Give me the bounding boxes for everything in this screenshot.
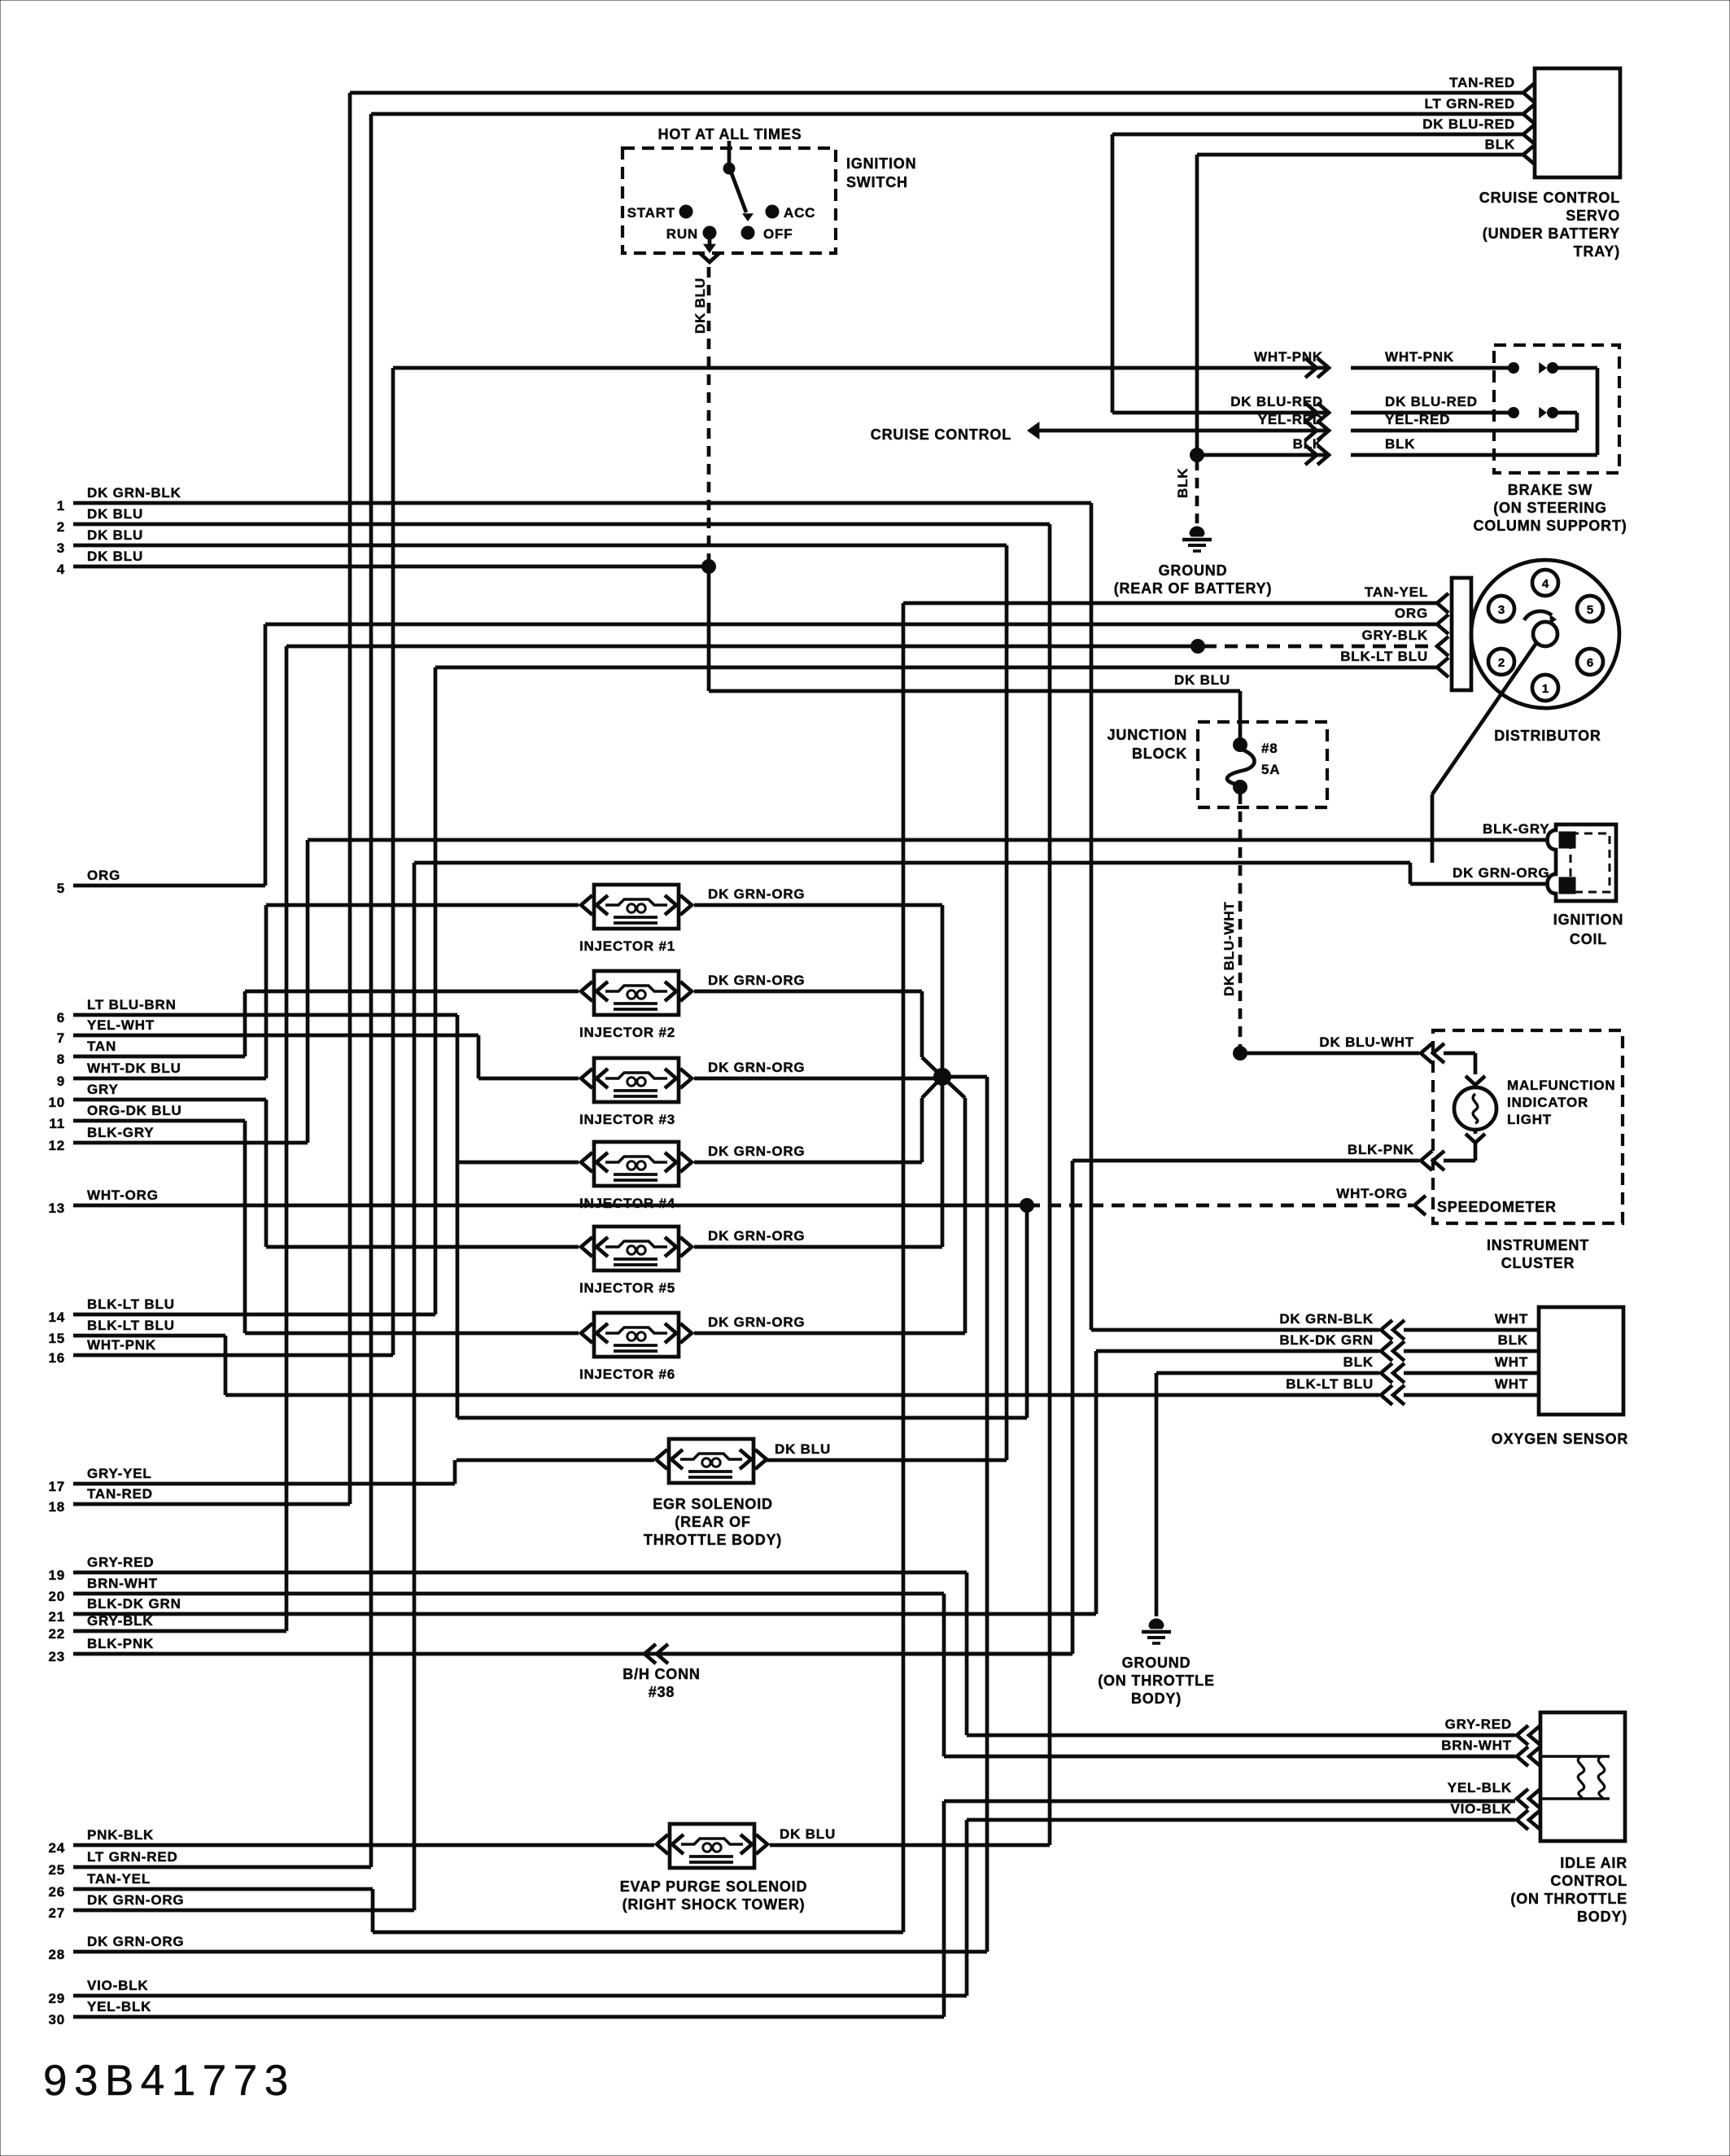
servo input BLK <box>1485 137 1535 164</box>
svg-text:(ON THROTTLE: (ON THROTTLE <box>1098 1673 1215 1689</box>
label INSTRUMENT CLUSTER <box>1487 1237 1589 1271</box>
wire GRY vertical to injector 5 <box>264 1100 269 1247</box>
wire 27 DK GRN-ORG <box>48 1892 414 1921</box>
svg-text:WHT: WHT <box>1495 1376 1528 1392</box>
wire 4 DK BLU <box>57 549 709 577</box>
svg-text:BLK-GRY: BLK-GRY <box>1483 821 1549 837</box>
wire 16 WHT-PNK <box>48 1337 393 1366</box>
svg-text:YEL-WHT: YEL-WHT <box>87 1017 155 1033</box>
wire DK GRN-ORG vertical bus to coil <box>413 863 417 1910</box>
label HOT AT ALL TIMES <box>658 126 802 142</box>
svg-text:CRUISE CONTROL: CRUISE CONTROL <box>1479 190 1620 206</box>
svg-text:TAN-YEL: TAN-YEL <box>1365 584 1428 600</box>
svg-text:SWITCH: SWITCH <box>846 174 908 190</box>
svg-text:BLK-LT BLU: BLK-LT BLU <box>1340 649 1428 664</box>
svg-text:DK GRN-ORG: DK GRN-ORG <box>708 1228 805 1244</box>
svg-text:IGNITION: IGNITION <box>846 155 916 172</box>
svg-text:BLK-LT BLU: BLK-LT BLU <box>87 1318 175 1333</box>
svg-text:LT GRN-RED: LT GRN-RED <box>87 1849 178 1865</box>
injector #4 <box>579 1142 806 1211</box>
fuse #8 5A <box>1227 738 1280 794</box>
svg-text:INJECTOR #3: INJECTOR #3 <box>579 1112 675 1127</box>
distributor terminal 6 <box>1577 649 1603 675</box>
injector #2 <box>579 971 806 1040</box>
svg-text:WHT-DK BLU: WHT-DK BLU <box>87 1061 181 1076</box>
cruise control servo box <box>1535 68 1620 177</box>
svg-text:LT BLU-BRN: LT BLU-BRN <box>87 997 177 1012</box>
injector 5 output <box>694 1245 942 1249</box>
distributor terminal 5 <box>1577 596 1603 622</box>
svg-text:DK GRN-BLK: DK GRN-BLK <box>1279 1311 1374 1327</box>
wire LT GRN-RED top <box>371 112 1523 116</box>
svg-text:GRY-BLK: GRY-BLK <box>1362 628 1428 643</box>
ignition switch dashed box <box>623 148 836 253</box>
svg-text:BLOCK: BLOCK <box>1132 746 1187 762</box>
wire BLK-LT BLU run <box>225 1393 1379 1397</box>
node injector output junction <box>934 905 988 1952</box>
wire 30 YEL-BLK <box>48 1999 944 2027</box>
wire ORG-DK BLU vertical to injector 6 <box>243 1121 247 1333</box>
wire 18 TAN-RED <box>48 1486 350 1515</box>
svg-text:10: 10 <box>48 1095 65 1110</box>
wire BLK run to ground <box>1156 1373 1379 1616</box>
svg-text:DK GRN-BLK: DK GRN-BLK <box>87 485 181 501</box>
distributor terminal 3 <box>1488 596 1514 622</box>
wire DK GRN-BLK run <box>1091 503 1379 1330</box>
svg-text:16: 16 <box>48 1350 65 1366</box>
svg-text:TAN-YEL: TAN-YEL <box>87 1871 151 1887</box>
wire TAN-RED top <box>350 91 1523 95</box>
wire TAN vertical to injector 2 <box>243 991 247 1056</box>
wire BLK to ground <box>1175 460 1197 523</box>
svg-text:BLK: BLK <box>1498 1332 1528 1348</box>
svg-text:EVAP PURGE SOLENOID: EVAP PURGE SOLENOID <box>620 1878 808 1895</box>
svg-text:OXYGEN SENSOR: OXYGEN SENSOR <box>1492 1431 1628 1447</box>
wire 26 TAN-YEL <box>48 1871 373 1900</box>
svg-text:14: 14 <box>48 1310 65 1325</box>
wire WHT-ORG dashed to speedometer <box>1027 1186 1426 1215</box>
terminal OFF <box>741 226 793 242</box>
label EVAP PURGE SOLENOID <box>620 1878 808 1913</box>
svg-text:HOT AT ALL TIMES: HOT AT ALL TIMES <box>658 126 802 142</box>
wire 9 WHT-DK BLU <box>57 1061 266 1089</box>
wire 14 BLK-LT BLU <box>48 1297 435 1325</box>
injector #6 <box>579 1313 806 1382</box>
svg-text:24: 24 <box>48 1840 65 1856</box>
svg-text:5: 5 <box>1587 603 1593 617</box>
wire 22 GRY-BLK <box>48 1613 286 1642</box>
svg-text:21: 21 <box>48 1609 65 1625</box>
EVAP output wire DK BLU <box>770 524 1050 1845</box>
svg-text:DK GRN-ORG: DK GRN-ORG <box>708 886 805 902</box>
svg-text:IDLE AIR: IDLE AIR <box>1560 1855 1627 1871</box>
wire DK BLU-RED <box>1112 394 1514 422</box>
oxygen sensor wire BLK-DK GRN <box>1279 1332 1539 1361</box>
distributor body <box>1471 560 1619 708</box>
svg-text:11: 11 <box>49 1116 65 1131</box>
svg-text:GRY-RED: GRY-RED <box>1445 1716 1512 1732</box>
idle air control wire VIO-BLK <box>1451 1801 1540 1830</box>
label IGNITION SWITCH <box>846 155 916 190</box>
wire 17 GRY-YEL <box>48 1466 455 1494</box>
svg-text:5: 5 <box>57 881 65 896</box>
svg-text:TAN: TAN <box>87 1039 116 1054</box>
wire BRN-WHT run <box>944 1594 1515 1756</box>
wire DK BLU into fuse <box>1239 691 1243 745</box>
svg-text:19: 19 <box>48 1568 65 1583</box>
idle air control wire BRN-WHT <box>1441 1738 1540 1766</box>
wire YEL-WHT vertical to injector 3 <box>477 1035 481 1078</box>
svg-text:(UNDER BATTERY: (UNDER BATTERY <box>1483 225 1620 242</box>
svg-text:GROUND: GROUND <box>1122 1655 1191 1671</box>
IAC internal coils <box>1540 1756 1610 1799</box>
oxygen sensor box <box>1539 1307 1623 1415</box>
wire WHT-PNK vertical bus <box>391 368 395 1355</box>
injector 3 output <box>694 1077 942 1081</box>
label IGNITION COIL <box>1553 912 1623 947</box>
wire BLK-GRY to coil <box>308 821 1549 840</box>
wire ORG vertical <box>264 624 268 886</box>
wire BLK-GRY vertical to coil <box>306 840 310 1143</box>
svg-text:DK GRN-ORG: DK GRN-ORG <box>708 973 805 988</box>
svg-text:RUN: RUN <box>666 226 698 242</box>
brake switch contact WHT-PNK <box>1509 362 1598 455</box>
svg-text:(ON STEERING: (ON STEERING <box>1493 500 1607 516</box>
wire 28 DK GRN-ORG <box>48 1934 987 1962</box>
svg-text:DK BLU: DK BLU <box>775 1441 831 1457</box>
svg-text:3: 3 <box>1498 603 1505 617</box>
svg-text:BLK: BLK <box>1343 1354 1374 1370</box>
servo input TAN-RED <box>1449 75 1535 103</box>
svg-text:27: 27 <box>48 1905 65 1921</box>
svg-text:3: 3 <box>57 540 65 556</box>
wire 23 BLK-PNK <box>48 1636 1073 1664</box>
svg-text:WHT-PNK: WHT-PNK <box>1385 349 1454 365</box>
injector #1 <box>579 885 806 954</box>
svg-text:VIO-BLK: VIO-BLK <box>87 1978 148 1993</box>
wire 10 GRY <box>48 1082 266 1110</box>
svg-text:INJECTOR #1: INJECTOR #1 <box>579 938 675 954</box>
svg-text:2: 2 <box>57 519 65 535</box>
ignition coil connector <box>1548 824 1617 901</box>
svg-text:CRUISE CONTROL: CRUISE CONTROL <box>871 426 1011 443</box>
wire DK BLU from RUN <box>692 238 719 574</box>
oxygen sensor wire BLK-LT BLU <box>1286 1376 1539 1405</box>
wire ORG distributor <box>265 606 1448 634</box>
wire LT GRN-RED vertical bus <box>369 114 374 1867</box>
svg-text:WHT-ORG: WHT-ORG <box>1336 1186 1408 1201</box>
wire 2 DK BLU <box>57 506 1050 535</box>
injector 2 input <box>245 990 579 994</box>
svg-text:BRN-WHT: BRN-WHT <box>87 1576 158 1591</box>
svg-text:OFF: OFF <box>763 226 793 242</box>
svg-text:TAN-RED: TAN-RED <box>87 1486 153 1502</box>
svg-text:VIO-BLK: VIO-BLK <box>1451 1801 1512 1817</box>
svg-text:23: 23 <box>48 1649 65 1664</box>
svg-text:BODY): BODY) <box>1577 1909 1627 1925</box>
junction block dashed box <box>1198 722 1327 807</box>
wire TAN-RED vertical bus <box>348 93 352 1504</box>
svg-text:SERVO: SERVO <box>1566 208 1620 224</box>
svg-text:13: 13 <box>48 1200 65 1216</box>
svg-text:DK GRN-ORG: DK GRN-ORG <box>708 1144 805 1159</box>
wire 13 WHT-ORG <box>48 1187 1027 1216</box>
wire GRY-YEL vertical to EGR <box>453 1460 457 1484</box>
injector 4 input <box>457 1161 579 1165</box>
brake switch dashed box <box>1494 345 1619 473</box>
wire TAN-YEL elbow segment <box>373 1889 903 1932</box>
svg-text:BODY): BODY) <box>1131 1690 1182 1707</box>
label JUNCTION BLOCK <box>1107 727 1187 762</box>
ignition switch pivot <box>723 141 735 174</box>
ground rear of battery <box>1114 527 1273 597</box>
label SPEEDOMETER <box>1437 1199 1557 1215</box>
svg-text:INDICATOR: INDICATOR <box>1507 1095 1588 1110</box>
svg-text:THROTTLE BODY): THROTTLE BODY) <box>644 1532 782 1548</box>
wire 19 GRY-RED <box>48 1555 967 1583</box>
wire 12 BLK-GRY <box>48 1125 308 1153</box>
svg-text:18: 18 <box>48 1499 65 1515</box>
svg-text:DK BLU: DK BLU <box>692 278 708 334</box>
injector 1 output <box>694 903 942 907</box>
svg-text:TAN-RED: TAN-RED <box>1449 75 1515 90</box>
wire LT BLU-BRN vertical to injector 4 <box>456 1015 460 1418</box>
svg-text:(RIGHT SHOCK TOWER): (RIGHT SHOCK TOWER) <box>623 1896 806 1913</box>
svg-text:INJECTOR #4: INJECTOR #4 <box>579 1196 675 1211</box>
injector 6 output <box>694 1077 965 1333</box>
wire BLK-DK GRN run <box>1096 1351 1379 1614</box>
diagram id 93B41773 <box>43 2057 295 2105</box>
svg-text:GROUND: GROUND <box>1159 562 1228 579</box>
svg-text:6: 6 <box>1587 656 1593 670</box>
svg-text:DK BLU: DK BLU <box>1174 672 1230 688</box>
svg-text:DK GRN-ORG: DK GRN-ORG <box>708 1060 805 1075</box>
wire 15 BLK-LT BLU <box>48 1318 225 1346</box>
svg-text:DK BLU-WHT: DK BLU-WHT <box>1319 1034 1414 1050</box>
terminal RUN <box>666 226 716 242</box>
EGR solenoid <box>656 1439 831 1483</box>
svg-text:WHT: WHT <box>1495 1354 1528 1370</box>
svg-text:9: 9 <box>57 1074 65 1089</box>
svg-text:CONTROL: CONTROL <box>1550 1873 1627 1889</box>
injector #3 <box>579 1058 806 1127</box>
wire YEL-BLK run <box>944 1801 1515 2017</box>
wire WHT-ORG vertical <box>457 1199 1034 1419</box>
wire BLK-LT BLU vertical bus <box>434 667 438 1314</box>
svg-text:GRY-BLK: GRY-BLK <box>87 1613 153 1629</box>
svg-text:8: 8 <box>57 1052 65 1067</box>
svg-text:DK BLU-RED: DK BLU-RED <box>1385 394 1478 409</box>
svg-text:7: 7 <box>57 1030 65 1046</box>
wire GRY-BLK distributor <box>286 628 1448 656</box>
B/H connector #38 <box>623 1644 1073 1700</box>
svg-text:BLK: BLK <box>1385 436 1415 452</box>
terminal START <box>627 205 692 221</box>
wire 29 VIO-BLK <box>48 1978 967 2006</box>
svg-text:BLK-DK GRN: BLK-DK GRN <box>1279 1332 1374 1348</box>
svg-text:(ON THROTTLE: (ON THROTTLE <box>1510 1891 1627 1907</box>
injector 2 output <box>694 991 942 1077</box>
label BRAKE SW <box>1474 482 1627 534</box>
label OXYGEN SENSOR <box>1492 1431 1628 1447</box>
svg-text:DK BLU: DK BLU <box>87 506 143 522</box>
wire BLK-LT BLU distributor <box>435 649 1448 677</box>
svg-text:YEL-BLK: YEL-BLK <box>1448 1780 1512 1795</box>
svg-text:DK GRN-ORG: DK GRN-ORG <box>87 1892 184 1908</box>
ignition switch lever <box>732 173 754 221</box>
svg-text:MALFUNCTION: MALFUNCTION <box>1507 1078 1615 1093</box>
label DISTRIBUTOR <box>1494 728 1601 744</box>
svg-text:BLK-LT BLU: BLK-LT BLU <box>87 1297 175 1312</box>
wire BLK-LT BLU vertical to oxygen row <box>224 1336 228 1395</box>
svg-text:ORG: ORG <box>1395 606 1428 621</box>
injector 4 output <box>694 1077 942 1162</box>
svg-text:4: 4 <box>1542 577 1549 591</box>
svg-text:ORG: ORG <box>87 868 120 883</box>
brake switch contact DK BLU-RED <box>1509 407 1578 431</box>
svg-text:INJECTOR #6: INJECTOR #6 <box>579 1367 675 1382</box>
servo input DK BLU-RED <box>1422 116 1535 144</box>
idle air control wire YEL-BLK <box>1448 1780 1540 1808</box>
svg-text:22: 22 <box>48 1626 65 1642</box>
svg-text:15: 15 <box>48 1331 65 1346</box>
wire WHT-DK BLU vertical to injector 1 <box>264 905 269 1078</box>
wire 20 BRN-WHT <box>48 1576 944 1604</box>
svg-text:(REAR OF BATTERY): (REAR OF BATTERY) <box>1114 580 1273 597</box>
svg-text:START: START <box>627 205 675 221</box>
wire 8 TAN <box>57 1039 245 1067</box>
svg-text:INSTRUMENT: INSTRUMENT <box>1487 1237 1589 1253</box>
svg-text:6: 6 <box>57 1010 65 1026</box>
label EGR SOLENOID <box>644 1496 782 1548</box>
svg-text:JUNCTION: JUNCTION <box>1107 727 1187 743</box>
svg-text:BRAKE SW: BRAKE SW <box>1508 482 1592 498</box>
svg-text:SPEEDOMETER: SPEEDOMETER <box>1437 1199 1557 1215</box>
svg-text:ACC: ACC <box>784 205 815 221</box>
svg-text:IGNITION: IGNITION <box>1553 912 1623 928</box>
wire 11 ORG-DK BLU <box>49 1103 245 1131</box>
svg-text:COIL: COIL <box>1570 931 1607 947</box>
svg-text:#38: #38 <box>649 1684 675 1700</box>
wire DK BLU below RUN solid <box>709 566 1240 691</box>
idle air control box <box>1540 1712 1625 1841</box>
label MALFUNCTION INDICATOR LIGHT <box>1507 1078 1615 1127</box>
distributor terminal 4 <box>1532 570 1558 596</box>
distributor terminal 2 <box>1488 649 1514 675</box>
svg-text:GRY-YEL: GRY-YEL <box>87 1466 152 1481</box>
svg-text:WHT: WHT <box>1495 1311 1528 1327</box>
svg-text:DK BLU-WHT: DK BLU-WHT <box>1221 901 1237 996</box>
svg-text:BLK-PNK: BLK-PNK <box>1348 1142 1414 1157</box>
svg-text:BLK: BLK <box>1175 468 1190 498</box>
wire distributor to coil diagonal <box>1432 643 1536 863</box>
injector 6 input <box>245 1332 579 1336</box>
svg-text:YEL-BLK: YEL-BLK <box>87 1999 151 2014</box>
distributor connector bracket <box>1452 578 1471 690</box>
svg-text:ORG-DK BLU: ORG-DK BLU <box>87 1103 182 1118</box>
svg-text:LIGHT: LIGHT <box>1507 1112 1552 1127</box>
svg-text:1: 1 <box>1542 682 1549 696</box>
malfunction indicator light <box>1454 1076 1496 1161</box>
svg-text:YEL-RED: YEL-RED <box>1385 412 1450 427</box>
svg-text:WHT-PNK: WHT-PNK <box>87 1337 156 1353</box>
oxygen sensor wire DK GRN-BLK <box>1279 1311 1539 1340</box>
wire DK BLU-WHT to cluster <box>1240 1034 1475 1074</box>
svg-text:PNK-BLK: PNK-BLK <box>87 1827 154 1843</box>
wire TAN-YEL distributor <box>903 584 1448 613</box>
wire WHT-PNK <box>393 349 1514 378</box>
wire 3 DK BLU <box>57 527 1007 556</box>
wire 5 ORG <box>57 868 265 896</box>
svg-text:B/H CONN: B/H CONN <box>623 1666 700 1682</box>
label IDLE AIR CONTROL <box>1510 1855 1627 1925</box>
wire BLK brake <box>1197 436 1597 465</box>
EVAP purge solenoid <box>657 1824 836 1868</box>
terminal ACC <box>766 205 815 221</box>
injector 5 input <box>266 1245 579 1249</box>
svg-text:YEL-RED: YEL-RED <box>1258 412 1323 427</box>
svg-text:DK GRN-ORG: DK GRN-ORG <box>87 1934 184 1949</box>
svg-text:EGR SOLENOID: EGR SOLENOID <box>653 1496 773 1512</box>
svg-text:DK BLU: DK BLU <box>780 1826 836 1842</box>
svg-text:30: 30 <box>48 2012 65 2027</box>
wire GRY-RED run <box>967 1572 1515 1735</box>
svg-text:4: 4 <box>57 562 65 577</box>
EGR input wire <box>457 1458 654 1463</box>
svg-text:BLK-PNK: BLK-PNK <box>87 1636 154 1651</box>
svg-text:BLK-DK GRN: BLK-DK GRN <box>87 1596 181 1612</box>
injector 1 input <box>266 903 579 907</box>
wire TAN-YEL long vertical <box>902 603 906 1932</box>
distributor rotor <box>1524 611 1557 646</box>
svg-text:LT GRN-RED: LT GRN-RED <box>1424 96 1515 112</box>
svg-text:5A: 5A <box>1261 762 1280 777</box>
svg-text:#8: #8 <box>1261 741 1278 756</box>
oxygen sensor wire BLK <box>1343 1354 1539 1383</box>
svg-text:BLK: BLK <box>1485 137 1515 152</box>
svg-text:25: 25 <box>48 1862 65 1878</box>
injector 3 input <box>478 1077 579 1081</box>
wire 1 DK GRN-BLK <box>57 485 1091 514</box>
wire BLK-PNK <box>1073 1142 1475 1654</box>
servo input LT GRN-RED <box>1424 96 1535 124</box>
svg-text:DK BLU: DK BLU <box>87 549 143 564</box>
svg-text:26: 26 <box>48 1884 65 1900</box>
wire DK GRN-ORG to coil <box>414 863 1549 884</box>
svg-text:1: 1 <box>57 498 65 514</box>
wire BLK top <box>1190 155 1524 462</box>
svg-text:TRAY): TRAY) <box>1574 243 1620 260</box>
svg-text:DK BLU: DK BLU <box>87 527 143 543</box>
svg-text:BRN-WHT: BRN-WHT <box>1441 1738 1512 1753</box>
injector #5 <box>579 1227 806 1296</box>
wire DK BLU-WHT dashed <box>1221 794 1247 1061</box>
svg-text:GRY-RED: GRY-RED <box>87 1555 154 1570</box>
svg-text:(REAR OF: (REAR OF <box>675 1514 750 1530</box>
svg-text:DK GRN-ORG: DK GRN-ORG <box>1453 865 1549 881</box>
distributor terminal 1 <box>1532 675 1558 701</box>
ground on throttle body <box>1098 1619 1215 1707</box>
wire GRY-BLK vertical bus <box>285 646 289 1631</box>
svg-text:BLK-GRY: BLK-GRY <box>87 1125 154 1140</box>
svg-text:COLUMN SUPPORT): COLUMN SUPPORT) <box>1474 518 1627 534</box>
svg-text:DK GRN-ORG: DK GRN-ORG <box>708 1314 805 1330</box>
wire 7 YEL-WHT <box>57 1017 478 1046</box>
svg-text:29: 29 <box>48 1991 65 2006</box>
svg-text:17: 17 <box>48 1479 65 1494</box>
svg-text:2: 2 <box>1498 656 1505 670</box>
svg-text:28: 28 <box>48 1947 65 1962</box>
